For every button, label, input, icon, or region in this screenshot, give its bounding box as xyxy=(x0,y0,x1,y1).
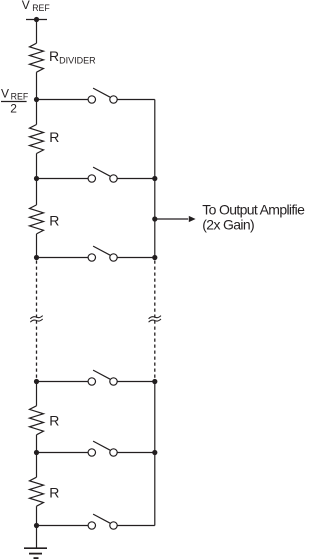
svg-text:R: R xyxy=(49,212,59,228)
svg-text:REF: REF xyxy=(11,92,29,102)
svg-text:R: R xyxy=(49,484,59,500)
svg-text:(2x Gain): (2x Gain) xyxy=(202,217,254,233)
svg-text:R: R xyxy=(49,129,59,145)
svg-text:V: V xyxy=(22,0,30,12)
svg-text:To Output Amplifier: To Output Amplifier xyxy=(202,202,305,218)
svg-text:REF: REF xyxy=(32,3,50,13)
svg-text:2: 2 xyxy=(10,102,17,116)
svg-text:RDIVIDER: RDIVIDER xyxy=(49,48,96,65)
svg-text:R: R xyxy=(49,413,59,429)
svg-text:V: V xyxy=(1,87,9,101)
